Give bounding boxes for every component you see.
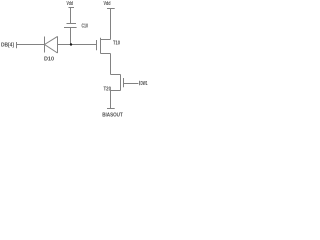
svg-text:BIASOUT: BIASOUT — [102, 112, 123, 118]
svg-text:C10: C10 — [82, 23, 89, 29]
svg-text:Vdd: Vdd — [67, 1, 74, 7]
svg-text:DW1: DW1 — [141, 81, 148, 87]
svg-text:DB[4]: DB[4] — [1, 43, 14, 49]
svg-text:T10: T10 — [113, 41, 120, 47]
svg-text:T20: T20 — [104, 87, 112, 93]
svg-text:Vdd: Vdd — [104, 1, 111, 7]
svg-text:D10: D10 — [44, 57, 54, 63]
